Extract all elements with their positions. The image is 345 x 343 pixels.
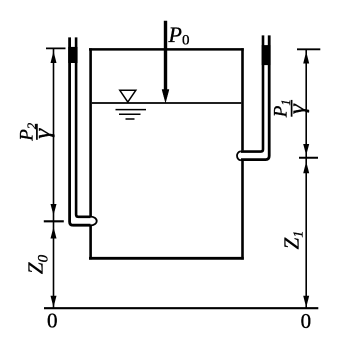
svg-text:γ: γ [284,103,309,114]
svg-text:0: 0 [301,309,312,333]
svg-text:0: 0 [182,33,190,49]
svg-text:0: 0 [47,308,58,332]
svg-text:P: P [168,22,182,47]
svg-text:γ: γ [30,128,55,139]
